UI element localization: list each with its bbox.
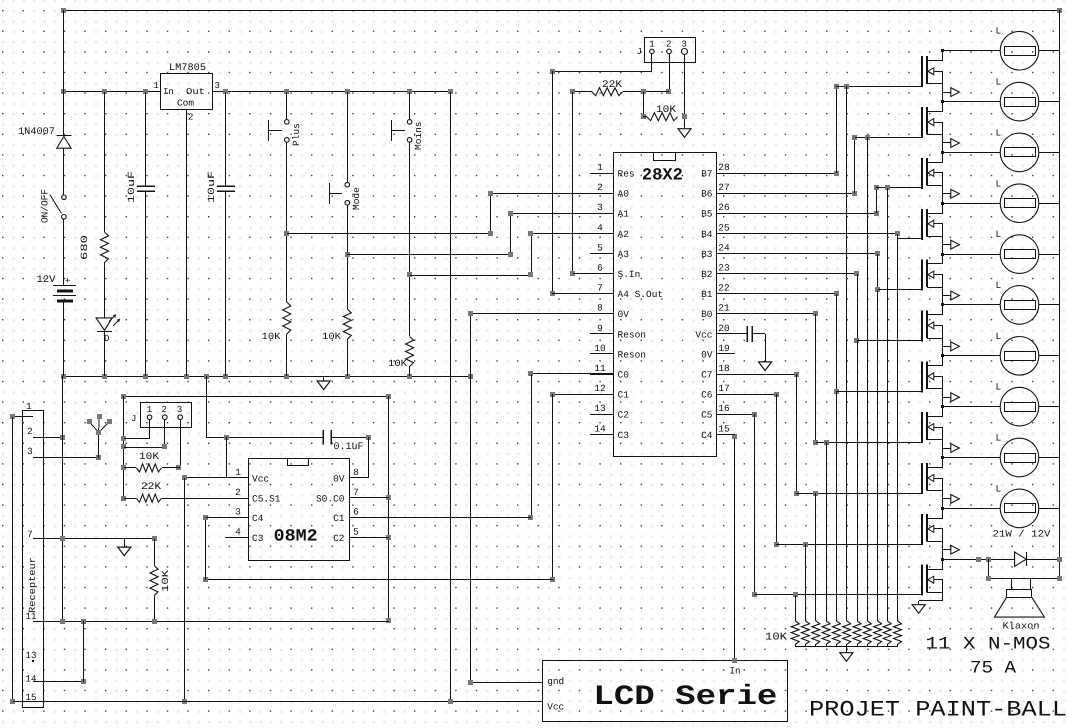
svg-text:10K: 10K [765,632,788,644]
lamp L1 [943,26,1059,70]
wire J2 pin1 [124,420,150,439]
svg-text:L: L [996,433,1002,444]
svg-text:C2: C2 [618,410,630,421]
wire B4 to Q4 gate [735,231,922,239]
wire Recepteur pin14 [33,621,86,684]
wire klaxon bottom [986,559,1062,581]
svg-text:28X2: 28X2 [642,167,683,186]
svg-text:12: 12 [594,383,606,394]
svg-text:3: 3 [597,202,603,213]
resistor 22K [592,80,623,96]
svg-text:15: 15 [718,423,730,434]
wire gate pulldown column Q2 [865,135,870,621]
svg-text:22K: 22K [602,80,622,91]
wire gate pulldown column Q9 [813,491,818,621]
svg-text:12V: 12V [37,275,56,286]
wire +5V rail [64,91,450,93]
wire Moins to A2 [410,231,614,277]
transistor Q2 N-MOS [922,100,959,147]
svg-text:8: 8 [597,303,603,314]
svg-text:10K: 10K [160,570,171,592]
svg-text:1: 1 [26,401,32,412]
caption 11 X N-MOS [926,635,1051,655]
transistor Q11 N-MOS [922,558,944,601]
transistor Q8 N-MOS [922,405,959,452]
transistor Q9 N-MOS [922,456,959,503]
svg-text:LCD Serie: LCD Serie [593,682,777,713]
connector J2 pins [147,415,182,420]
svg-text:J: J [637,47,642,57]
svg-text:21W / 12V: 21W / 12V [993,529,1051,540]
wire switch to battery [63,219,65,286]
svg-text:2: 2 [27,426,33,437]
wire cap2 bottom [225,191,227,376]
diode 1N4007 [18,127,72,148]
svg-text:Vcc: Vcc [252,473,269,484]
connector J (top) pins [650,49,688,55]
wire Q11 source to ground [919,601,944,606]
svg-text:16: 16 [718,403,730,414]
capacitor 10uF input [126,171,155,203]
svg-text:C1: C1 [618,390,630,401]
label lamp rating [993,529,1051,540]
wire Plus to A0 [287,191,614,236]
wire J pin1 to S.Out [550,54,652,296]
svg-text:A1: A1 [618,209,630,220]
svg-text:3: 3 [177,405,182,415]
svg-text:L: L [996,483,1002,494]
svg-text:1: 1 [649,40,654,50]
wire cap1 bottom [145,191,147,376]
svg-text:11: 11 [594,363,606,374]
svg-text:18: 18 [718,363,730,374]
svg-text:Vcc: Vcc [695,329,712,340]
svg-text:In: In [730,666,741,677]
wire 22K segment [570,89,669,94]
wire klaxon drain [943,557,1015,562]
svg-text:11: 11 [26,611,37,622]
svg-text:19: 19 [718,343,730,354]
wire Recepteur pin11 [33,619,389,624]
wire Mode to A1 [347,211,614,257]
svg-text:3: 3 [235,507,241,518]
svg-text:21: 21 [718,303,730,314]
caption 75 A [970,659,1017,679]
svg-text:5: 5 [353,527,359,538]
svg-text:0V: 0V [618,309,630,320]
connector J2 box [131,403,192,428]
svg-text:C4: C4 [701,430,713,441]
wire gate pulldown column Q11 [793,592,798,621]
svg-text:B1: B1 [701,289,713,300]
transistor Q1 N-MOS [922,49,959,97]
svg-text:L: L [996,178,1002,189]
wire C7 to Q9 gate [735,372,922,496]
svg-text:L: L [996,26,1002,37]
wire 08M2 C2 pin5 [349,537,389,539]
wire S.In drop [570,92,614,276]
pushbutton Moins [392,92,425,150]
wire right +12V rail (lamps supply) [1059,10,1061,579]
wire J2 pin2 [124,420,167,449]
svg-text:C3: C3 [252,533,264,544]
svg-text:+: + [65,277,71,288]
svg-text:Reson: Reson [618,329,647,340]
wire 08M2 Vcc pin1 [182,475,248,704]
svg-text:L: L [996,331,1002,342]
wire Mode 10K to ground [347,339,349,376]
svg-text:10K: 10K [262,331,281,342]
wire 08M2 pin4 stub [225,537,248,539]
svg-text:L: L [996,127,1002,138]
svg-text:B2: B2 [701,269,713,280]
svg-text:75 A: 75 A [970,659,1017,679]
svg-text:C1: C1 [333,513,345,524]
svg-text:1N4007: 1N4007 [18,127,55,138]
svg-text:C4: C4 [252,513,264,524]
ground arrow Vcc cap [759,362,772,371]
wire gate pulldown column Q7 [836,392,838,621]
svg-text:10K: 10K [388,358,407,369]
svg-text:17: 17 [718,383,729,394]
svg-text:C3: C3 [618,430,630,441]
resistor 10K Moins pulldown [388,337,414,370]
svg-text:28: 28 [718,162,730,173]
svg-text:Klaxon: Klaxon [1003,621,1040,632]
svg-text:13: 13 [594,403,606,414]
svg-text:2: 2 [188,113,193,123]
svg-text:A3: A3 [618,249,630,260]
wire 0.1uF to 0V pin8 [349,437,369,478]
transistor Q7 N-MOS [922,354,959,402]
svg-text:2: 2 [666,40,671,50]
svg-text:B7: B7 [701,169,712,180]
lamp L3 [943,127,1059,171]
wire J2 frame [121,394,391,501]
wire B1 to Q7 gate [735,291,922,394]
svg-text:6: 6 [597,263,603,274]
wire 28X2 C1 to 08M2 C4 [203,392,614,582]
wire C6 to Q10 gate [735,392,922,547]
svg-text:20: 20 [718,323,730,334]
IC U2 08M2 body [249,459,350,561]
wire gate pulldown column Q4 [897,239,899,621]
wire 680 to LED [104,262,106,318]
resistor 10K (J2) [124,452,180,472]
svg-text:S.In: S.In [618,269,641,280]
battery 12V [37,275,77,301]
wire +5V down to LCD Vcc [450,92,452,702]
wire Moins 10K to ground [409,366,411,376]
transistor Q10 N-MOS [922,507,959,554]
svg-text:Mode: Mode [351,187,362,210]
svg-text:8: 8 [353,467,359,478]
wire gate pulldown column Q8 [824,440,829,621]
wire ground rail [64,376,470,378]
IC U1 left pins 1-14 [590,162,663,441]
wire Recepteur pin3 antenna [33,455,101,460]
resistor 680 [79,232,109,262]
diode klaxon flyback [1015,552,1062,566]
IC U1 28X2 body [614,153,717,457]
wire ground to LCD gnd [468,376,542,685]
svg-text:22: 22 [718,283,730,294]
lamp L9 [943,433,1059,477]
lamp L6 [943,280,1059,324]
speaker Klaxon [994,579,1044,632]
svg-text:4: 4 [235,527,241,538]
svg-text:10K: 10K [656,105,676,116]
ground arrow resistor array [840,646,853,661]
node rail junctions [61,89,453,94]
svg-text:7: 7 [27,529,33,540]
wire top +12V rail [61,8,1062,13]
svg-text:7: 7 [597,283,603,294]
svg-text:Moins: Moins [413,121,424,150]
svg-text:2: 2 [235,487,241,498]
svg-text:3: 3 [215,81,220,91]
pushbutton Plus [269,92,303,146]
svg-text:LM7805: LM7805 [169,63,206,74]
connector Recepteur box [23,411,44,708]
svg-text:Recepteur: Recepteur [27,557,38,613]
lamp L7 [943,331,1059,375]
svg-text:10uF: 10uF [126,171,137,203]
wire battery to ground rail [63,301,65,376]
svg-text:1: 1 [597,162,603,173]
wire Moins bottom [407,142,412,336]
svg-text:In: In [163,87,174,97]
svg-text:2: 2 [162,405,167,415]
svg-text:A4 S.Out: A4 S.Out [618,289,664,300]
lamp L4 [943,178,1059,222]
svg-text:B4: B4 [701,229,713,240]
lamp L2 [943,77,1059,121]
svg-text:08M2: 08M2 [274,528,318,547]
wire ground to 0.1uF [206,376,207,438]
svg-text:10K: 10K [139,452,159,463]
lamp L10 [943,483,1059,527]
svg-text:gnd: gnd [547,676,564,687]
svg-text:Plus: Plus [291,123,302,146]
antenna [87,414,112,458]
ground arrow pin7 [118,539,131,556]
svg-text:14: 14 [594,423,606,434]
svg-text:10K: 10K [322,331,341,342]
wire gate pulldown column Q1 [844,84,849,621]
svg-text:J: J [131,414,136,424]
svg-text:B0: B0 [701,309,713,320]
svg-text:Com: Com [177,99,194,109]
wire rail to R 680 [104,92,106,232]
capacitor 10uF output [206,171,235,203]
svg-text:7: 7 [353,487,359,498]
wire Plus 10K to ground [286,334,288,376]
wire LED to ground rail [104,332,106,376]
transistor Q3 N-MOS [922,151,959,198]
svg-text:C6: C6 [701,390,713,401]
wire B7 to Q1 gate [735,84,922,176]
svg-text:4: 4 [597,222,603,233]
wire J2 pin3 [176,420,181,470]
svg-text:Res: Res [618,169,635,180]
wire diode to switch [63,148,65,195]
svg-text:C2: C2 [333,533,345,544]
wire 0V pin8 to ground rail [468,311,614,376]
svg-text:C7: C7 [701,370,712,381]
module LCD Serie box [543,661,788,722]
svg-text:3: 3 [27,446,33,457]
svg-text:B6: B6 [701,189,713,200]
svg-text:13: 13 [26,650,37,661]
wire Recepteur pin15 +5V [13,699,542,704]
svg-text:26: 26 [718,202,730,213]
connector Recepteur pin13 stub [32,660,34,662]
wire 08M2 S0.C0 pin7 [349,497,389,499]
transistor Q4 N-MOS [922,202,959,249]
svg-text:23: 23 [718,263,730,274]
wire Recepteur pin7 [33,536,157,541]
resistor 10K Plus pulldown [262,302,291,342]
wire gate pulldown column Q3 [885,185,890,621]
svg-text:A2: A2 [618,229,630,240]
svg-text:B3: B3 [701,249,713,260]
ground arrow on rail [317,376,330,390]
wire 28X2 C0 to 08M2 C1 [349,371,614,520]
transistor Q5 N-MOS [922,253,959,300]
resistor 22K (J2) [124,482,248,502]
ground arrow Q11 [912,605,925,614]
svg-text:10uF: 10uF [206,171,217,203]
wire C4 pin15 to LCD In [717,434,737,663]
svg-text:680: 680 [79,235,90,260]
svg-text:L: L [996,229,1002,240]
svg-text:24: 24 [718,242,730,253]
wire B2 to Q6 gate [735,271,922,343]
wire Mode bottom [345,205,350,309]
svg-text:ON/OFF: ON/OFF [40,189,51,223]
resistor array 11x 10K [765,621,902,647]
resistor 10K Mode pulldown [322,309,351,342]
switch ON/OFF [40,189,67,223]
svg-text:10: 10 [594,343,606,354]
lamp L5 [943,229,1059,273]
svg-text:1: 1 [147,405,152,415]
svg-text:6: 6 [353,507,359,518]
wire B0 to Q8 gate [735,311,922,445]
svg-text:0V: 0V [333,473,345,484]
svg-text:1: 1 [235,467,241,478]
svg-text:L: L [996,382,1002,393]
resistor 10K (J divider) [647,105,678,121]
wire B3 to Q5 gate [735,251,922,292]
regulator U LM7805 [154,63,220,123]
node ground rail junctions [61,374,473,379]
capacitor 0.1uF [206,430,371,453]
wire C5 to Q11 gate [735,412,922,597]
wire gate pulldown column Q10 [803,542,808,621]
wire LM7805 Com to ground [186,110,188,376]
wire cap2 top [225,92,227,186]
capacitor 100nF on Vcc pin20 [735,326,766,362]
wire battery column top [63,10,65,136]
resistor 10K (receiver pulldown) [150,539,171,621]
wire drain-source chain [942,92,944,559]
wire Plus bottom [284,142,289,302]
wire cap1 top [145,92,147,186]
caption PROJET PAINT-BALL [809,698,1067,723]
svg-text:B5: B5 [701,209,713,220]
svg-text:9: 9 [597,323,603,334]
svg-text:Reson: Reson [618,349,647,360]
wire 0.1uF to Vcc pin1 [226,437,228,478]
svg-text:PROJET PAINT-BALL: PROJET PAINT-BALL [809,698,1067,723]
wire Recepteur pin1 [10,414,33,704]
svg-text:25: 25 [718,222,730,233]
IC U1 right pins 28-15 [695,162,735,441]
connector Recepteur pin labels [26,401,37,703]
svg-text:22K: 22K [141,482,161,493]
wire B6 to Q2 gate [735,135,922,196]
svg-text:S0.C0: S0.C0 [316,493,345,504]
svg-text:L: L [996,77,1002,88]
LED D [96,315,120,345]
svg-text:L: L [996,280,1002,291]
svg-text:0.1uF: 0.1uF [334,442,364,453]
svg-text:14: 14 [26,674,37,685]
svg-text:0V: 0V [701,349,713,360]
connector J (top) box [637,38,696,63]
lamp L8 [943,382,1059,426]
svg-text:5: 5 [597,242,603,253]
svg-text:1: 1 [154,81,159,91]
wire J pin3 down [682,54,687,129]
wire B5 to Q3 gate [735,185,922,216]
wire gate pulldown column Q5 [877,290,879,621]
svg-text:2: 2 [597,182,603,193]
svg-text:11 X N-MOS: 11 X N-MOS [926,635,1051,655]
wire gate pulldown column Q6 [857,341,859,621]
IC U2 pin labels [235,467,359,544]
svg-text:C5: C5 [701,410,713,421]
wire Recepteur gnd column [62,376,64,621]
svg-text:Out: Out [186,87,205,97]
wire S0/C2 column [386,396,391,623]
transistor Q6 N-MOS [922,303,959,351]
svg-text:C0: C0 [618,370,630,381]
svg-text:A0: A0 [618,189,630,200]
ground arrow J pin3 [678,129,691,138]
wire J pin2 to +5V segment [666,54,671,94]
wire Recepteur pin2 [33,435,65,440]
svg-text:27: 27 [718,182,729,193]
pushbutton Mode [329,92,362,210]
svg-text:C5.S1: C5.S1 [252,493,281,504]
svg-text:Vcc: Vcc [547,702,564,713]
wire 10K drop [641,92,647,119]
